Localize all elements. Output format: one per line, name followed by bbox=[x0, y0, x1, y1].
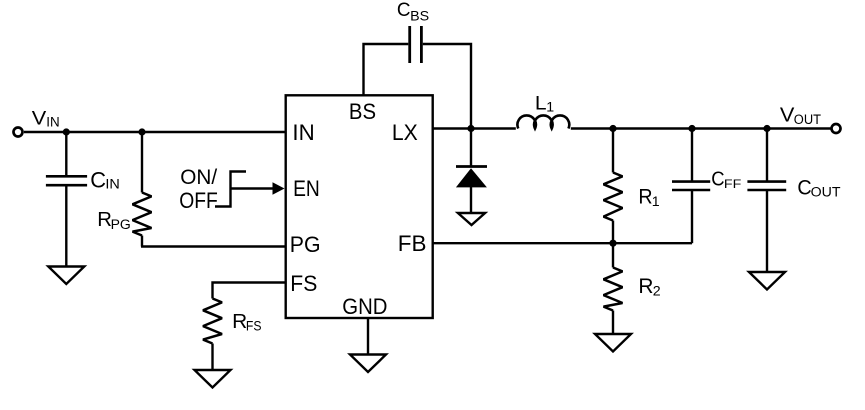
svg-text:BS: BS bbox=[349, 99, 376, 124]
svg-text:IN: IN bbox=[105, 177, 119, 193]
svg-text:LX: LX bbox=[392, 120, 418, 145]
svg-text:FS: FS bbox=[246, 319, 262, 335]
svg-text:IN: IN bbox=[292, 120, 314, 145]
svg-text:R: R bbox=[638, 185, 652, 208]
svg-text:C: C bbox=[90, 167, 106, 192]
svg-text:EN: EN bbox=[293, 176, 320, 201]
svg-text:OUT: OUT bbox=[811, 185, 841, 201]
svg-text:1: 1 bbox=[652, 194, 660, 210]
svg-text:ON/: ON/ bbox=[180, 166, 217, 189]
svg-text:C: C bbox=[797, 176, 811, 199]
svg-text:OFF: OFF bbox=[179, 188, 218, 213]
svg-text:C: C bbox=[397, 0, 411, 21]
svg-text:L: L bbox=[535, 93, 547, 115]
svg-text:OUT: OUT bbox=[794, 112, 821, 128]
svg-text:IN: IN bbox=[46, 114, 59, 130]
svg-text:BS: BS bbox=[410, 8, 429, 24]
svg-text:C: C bbox=[711, 169, 724, 191]
svg-text:V: V bbox=[32, 107, 47, 129]
svg-text:GND: GND bbox=[342, 294, 387, 319]
svg-text:FF: FF bbox=[724, 177, 742, 191]
svg-text:FB: FB bbox=[398, 231, 427, 256]
svg-text:V: V bbox=[780, 103, 795, 126]
svg-text:FS: FS bbox=[290, 271, 317, 296]
svg-text:PG: PG bbox=[111, 217, 131, 233]
svg-text:1: 1 bbox=[546, 99, 554, 115]
svg-text:PG: PG bbox=[290, 232, 321, 257]
svg-text:R: R bbox=[638, 275, 653, 298]
svg-text:2: 2 bbox=[653, 283, 661, 299]
